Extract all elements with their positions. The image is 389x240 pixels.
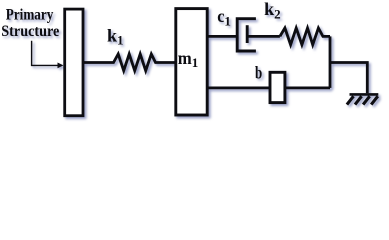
svg-text:Structure: Structure [1, 23, 59, 40]
svg-text:c1: c1 [217, 6, 231, 28]
damper c1 cup [237, 19, 256, 51]
spring k2 [280, 28, 330, 45]
damper c1 piston [246, 25, 249, 43]
wall (primary structure) [65, 9, 83, 116]
arrowhead [58, 63, 64, 69]
svg-text:b: b [255, 62, 262, 82]
wire junction vertical (k2 branch down to b branch) [329, 36, 332, 88]
ground bar [350, 93, 379, 96]
ground hatch lines [347, 96, 378, 104]
damper b box [270, 72, 285, 102]
mass m1 box [176, 9, 207, 115]
wire m1 to damper c1 [206, 35, 237, 38]
wire piston to spring k2 [247, 35, 280, 38]
wire arrow pointer (thin) [32, 41, 58, 66]
svg-text:k2: k2 [264, 0, 281, 22]
wire bottom branch m1 to junction [206, 87, 330, 90]
svg-text:k1: k1 [107, 25, 124, 47]
spring k1 [83, 54, 176, 71]
svg-text:Primary: Primary [6, 7, 54, 24]
wire to ground [330, 63, 367, 94]
